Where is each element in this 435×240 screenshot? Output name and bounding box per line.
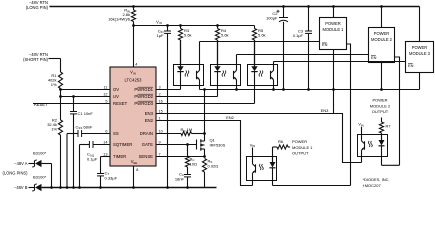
wire module1 output return bbox=[347, 44, 351, 186]
wire opto4 cathode to module1 return bbox=[272, 181, 274, 186]
svg-text:POWER: POWER bbox=[372, 98, 387, 103]
svg-text:18nF: 18nF bbox=[175, 176, 185, 181]
svg-text:LTC4253: LTC4253 bbox=[125, 78, 143, 83]
svg-text:GATE: GATE bbox=[142, 142, 153, 147]
opto U4 PWRGD3 bbox=[248, 65, 278, 86]
resistor RD 1M bbox=[156, 133, 181, 135]
svg-text:RESET: RESET bbox=[34, 102, 48, 107]
capacitor CSQ 0.1uF bbox=[93, 144, 110, 146]
svg-text:0.33µF: 0.33µF bbox=[105, 175, 118, 180]
transistor Q1 IRF530S bbox=[156, 144, 197, 146]
wire drain riser to bus bbox=[204, 90, 206, 134]
svg-text:10: 10 bbox=[159, 129, 163, 133]
svg-text:VEE: VEE bbox=[131, 159, 138, 165]
wire opto2 collector to EN wire bbox=[236, 55, 238, 65]
svg-text:EN2: EN2 bbox=[226, 115, 235, 120]
svg-text:14: 14 bbox=[103, 140, 107, 144]
wire VEE pin 8 bbox=[133, 166, 135, 188]
svg-text:MODULE 1: MODULE 1 bbox=[323, 27, 345, 32]
svg-text:15: 15 bbox=[159, 109, 163, 113]
opto U5 module1 output monitor bbox=[247, 157, 277, 181]
resistor R7 bbox=[381, 118, 383, 123]
svg-text:VIN: VIN bbox=[156, 19, 162, 25]
svg-text:5.6k: 5.6k bbox=[184, 33, 192, 38]
svg-text:VIN: VIN bbox=[358, 122, 364, 128]
wire VIN node bbox=[134, 25, 255, 27]
wire enable module 1 bbox=[200, 41, 320, 43]
wire -48V OUT load bus bbox=[200, 89, 420, 91]
resistor R1 402k 1% bbox=[58, 72, 62, 89]
svg-text:TIMER: TIMER bbox=[113, 154, 126, 159]
capacitor C1 10nF bbox=[72, 95, 75, 98]
capacitor CT 0.33uF bbox=[101, 156, 111, 158]
opto U2 PWRGD1 bbox=[174, 65, 204, 86]
resistor R5 5.6k bbox=[254, 26, 256, 29]
wire opto1 emitter to bus bbox=[199, 86, 201, 90]
svg-text:C1 10nF: C1 10nF bbox=[78, 111, 94, 116]
svg-text:POWER: POWER bbox=[325, 21, 341, 26]
wire EN2 pin1 bbox=[156, 121, 253, 186]
wire rail to module3 bbox=[419, 7, 421, 42]
svg-text:(LONG PIN): (LONG PIN) bbox=[26, 5, 49, 10]
svg-text:4: 4 bbox=[135, 63, 137, 67]
wire UV bbox=[61, 96, 111, 98]
wire rail to module2 bbox=[381, 7, 383, 28]
svg-text:(SHORT PIN): (SHORT PIN) bbox=[23, 57, 49, 62]
svg-text:POWER: POWER bbox=[374, 31, 390, 36]
svg-text:MODULE 3: MODULE 3 bbox=[409, 51, 431, 56]
resistor RC 10ohm bbox=[186, 143, 189, 146]
svg-text:−48V B: −48V B bbox=[14, 185, 28, 190]
opto U6 module2 output monitor bbox=[358, 135, 388, 157]
wire rail to module1 bbox=[333, 7, 335, 18]
svg-text:EN3: EN3 bbox=[321, 108, 330, 113]
opto U3 PWRGD2 bbox=[211, 65, 241, 86]
wire module1 to bus bbox=[333, 50, 335, 90]
svg-text:PWRGD2: PWRGD2 bbox=[134, 94, 153, 99]
svg-text:UV: UV bbox=[113, 94, 119, 99]
wire SENSE pin7 bbox=[156, 156, 205, 158]
svg-text:1%: 1% bbox=[51, 127, 57, 132]
svg-text:MODULE 1: MODULE 1 bbox=[292, 145, 313, 150]
wire module3 to bus bbox=[419, 73, 421, 90]
svg-text:EN2: EN2 bbox=[145, 118, 154, 123]
capacitor CSS 68nF bbox=[82, 133, 110, 135]
wire -48V RTN (LONG PIN) top rail bbox=[50, 6, 420, 8]
svg-text:SENSE: SENSE bbox=[139, 154, 154, 159]
node UV tap bbox=[60, 90, 62, 97]
svg-text:RD 1M: RD 1M bbox=[181, 127, 193, 133]
wire module2 output return bbox=[395, 57, 400, 165]
resistor R6 bbox=[272, 147, 274, 157]
resistor R3 5.6k bbox=[180, 26, 182, 29]
wire EN3 pin15 bbox=[156, 114, 362, 163]
wire PWRGD1 pin3 to LED1 cathode bbox=[156, 89, 181, 91]
wire enable module 3 bbox=[274, 61, 406, 63]
wire OV bbox=[61, 89, 111, 91]
svg-text:MODULE 2: MODULE 2 bbox=[370, 103, 391, 108]
power module 3 box bbox=[406, 42, 434, 73]
wire opto3 emitter to bus bbox=[273, 86, 275, 90]
svg-text:MODULE 2: MODULE 2 bbox=[371, 37, 393, 42]
svg-text:POWER: POWER bbox=[412, 45, 428, 50]
IC U1 LTC4253 bbox=[110, 67, 156, 166]
svg-text:2: 2 bbox=[159, 92, 161, 96]
power module 1 box bbox=[320, 18, 347, 50]
svg-text:*DIODES, INC.: *DIODES, INC. bbox=[363, 177, 390, 182]
svg-text:B3100*: B3100* bbox=[33, 150, 47, 155]
svg-text:0.1µF: 0.1µF bbox=[293, 33, 304, 38]
wire PWRGD3 pin16 to LED3 cathode bbox=[156, 103, 255, 105]
wire opto1 collector to EN wire bbox=[199, 42, 201, 65]
wire enable module 2 bbox=[237, 54, 369, 56]
svg-text:10Ω: 10Ω bbox=[190, 161, 197, 166]
wire -48V B / VEE rail bbox=[42, 187, 217, 189]
wire bus stub to EN3 bbox=[333, 90, 335, 114]
wire opto4 emitter to EN2 bbox=[252, 181, 254, 186]
node OV tap bbox=[59, 88, 62, 91]
svg-text:5: 5 bbox=[105, 99, 107, 103]
svg-text:†MOC207: †MOC207 bbox=[363, 183, 382, 188]
svg-text:12: 12 bbox=[103, 92, 107, 96]
capacitor CC 18nF bbox=[187, 167, 189, 175]
wire VIN pin 4 lead bbox=[133, 26, 135, 68]
svg-text:PWRGD1: PWRGD1 bbox=[134, 87, 153, 92]
svg-text:SQTIMER: SQTIMER bbox=[113, 142, 132, 147]
svg-text:100µF: 100µF bbox=[266, 16, 278, 21]
svg-text:6: 6 bbox=[105, 129, 107, 133]
wire RESET bbox=[33, 103, 110, 105]
svg-text:1µF: 1µF bbox=[157, 33, 165, 38]
svg-text:7: 7 bbox=[159, 152, 161, 156]
svg-text:−48V A: −48V A bbox=[14, 161, 28, 166]
svg-text:OV: OV bbox=[113, 87, 119, 92]
wire -48V RTN (SHORT PIN) bbox=[49, 58, 61, 60]
svg-text:1: 1 bbox=[159, 116, 161, 120]
svg-text:0.02Ω: 0.02Ω bbox=[208, 163, 219, 168]
resistor R4 5.6k bbox=[217, 26, 219, 29]
wire opto3 collector to EN wire bbox=[273, 62, 275, 65]
svg-text:3: 3 bbox=[159, 85, 161, 89]
resistor RIN 2.8k bbox=[133, 7, 135, 11]
svg-text:1%: 1% bbox=[51, 82, 57, 87]
svg-text:EN3: EN3 bbox=[145, 111, 154, 116]
svg-text:13: 13 bbox=[103, 152, 107, 156]
svg-text:RESET: RESET bbox=[113, 101, 128, 106]
svg-text:5.6k: 5.6k bbox=[258, 33, 266, 38]
capacitor CIN 1uF bbox=[167, 26, 169, 32]
wire module2 to bus bbox=[381, 63, 383, 90]
svg-text:0.1µF: 0.1µF bbox=[87, 156, 98, 161]
wire PWRGD2 pin2 to LED2 cathode bbox=[156, 96, 218, 98]
svg-text:DRAIN: DRAIN bbox=[140, 131, 153, 136]
svg-text:OUTPUT: OUTPUT bbox=[372, 109, 389, 114]
svg-text:R7: R7 bbox=[386, 124, 392, 129]
wire opto2 emitter to bus bbox=[236, 86, 238, 90]
svg-text:VIN: VIN bbox=[130, 70, 136, 76]
svg-text:R6: R6 bbox=[278, 139, 284, 144]
resistor RS 0.02ohm bbox=[202, 159, 206, 173]
svg-text:PWRGD3: PWRGD3 bbox=[134, 101, 153, 106]
wire opto5 emitter to EN3 bbox=[361, 157, 363, 163]
svg-text:IRF530S: IRF530S bbox=[210, 143, 226, 148]
svg-text:CSS 68nF: CSS 68nF bbox=[76, 124, 94, 130]
svg-text:POWER: POWER bbox=[292, 139, 307, 144]
svg-text:SS: SS bbox=[113, 131, 119, 136]
svg-text:OUTPUT: OUTPUT bbox=[292, 151, 309, 156]
svg-text:(LONG PINS): (LONG PINS) bbox=[2, 171, 28, 176]
node drain bbox=[203, 132, 206, 135]
capacitor C3 0.1uF bbox=[308, 7, 310, 32]
resistor R2 32.4k 1% bbox=[60, 97, 62, 121]
svg-text:VIN: VIN bbox=[250, 142, 256, 148]
svg-text:16k(1/4W)/6: 16k(1/4W)/6 bbox=[108, 17, 131, 22]
svg-text:5.6k: 5.6k bbox=[221, 33, 229, 38]
svg-text:B3100*: B3100* bbox=[33, 175, 47, 180]
svg-text:8: 8 bbox=[136, 168, 138, 172]
wire opto5 cathode to module2 return bbox=[381, 157, 383, 166]
svg-text:9: 9 bbox=[159, 140, 161, 144]
capacitor C2 100uF bbox=[283, 7, 285, 18]
power module 2 box bbox=[369, 28, 395, 63]
svg-text:16: 16 bbox=[159, 99, 163, 103]
svg-text:11: 11 bbox=[104, 85, 108, 89]
